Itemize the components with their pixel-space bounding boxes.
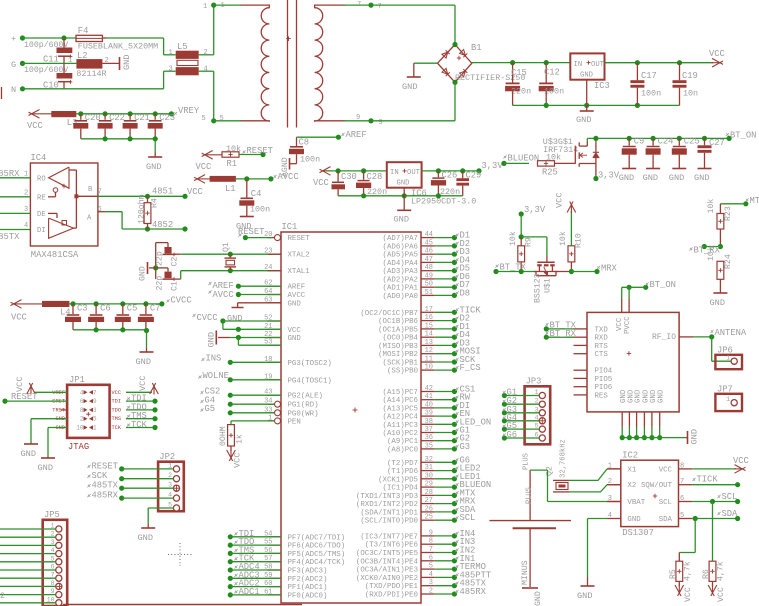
- wire JP1 TMS: [126, 418, 155, 420]
- wire WOLNE net: [228, 377, 233, 382]
- vcc arrow at R1: [204, 154, 222, 156]
- svg-text:BLUEON: BLUEON: [508, 154, 540, 164]
- IC1 right pin 46 net D3: [421, 253, 435, 255]
- svg-text:C20: C20: [85, 113, 101, 123]
- vcc arrow above R10: [570, 211, 572, 246]
- svg-text:GND: GND: [288, 300, 302, 308]
- wire AVCC net: [236, 178, 271, 180]
- wire SDA net: [692, 518, 738, 520]
- svg-text:RO: RO: [37, 176, 46, 184]
- svg-text:WOLNE: WOLNE: [203, 371, 229, 381]
- svg-text:C19: C19: [682, 71, 698, 81]
- svg-text:VCC: VCC: [27, 121, 43, 131]
- svg-text:(T2)PD7: (T2)PD7: [387, 460, 418, 468]
- JP5 pin 5: [56, 559, 62, 565]
- svg-text:8: 8: [80, 407, 84, 414]
- JP3 pin 4 net G4: [539, 418, 545, 424]
- capacitor C27: [704, 138, 706, 145]
- svg-text:C15: C15: [511, 68, 527, 78]
- svg-text:3: 3: [93, 407, 97, 414]
- IC1 right pin 16 net D2: [421, 320, 435, 322]
- svg-text:GND: GND: [402, 82, 417, 92]
- inductor L2: [76, 59, 102, 69]
- svg-text:14: 14: [425, 331, 433, 339]
- IC1 right pin 49 net D6: [421, 278, 435, 280]
- svg-text:9: 9: [93, 398, 97, 405]
- mosfet U$1 BSS123: [546, 256, 548, 263]
- connector JP6: [715, 355, 742, 369]
- svg-text:VCC: VCC: [313, 178, 329, 188]
- wire MRX net: [571, 271, 597, 273]
- svg-text:R6: R6: [702, 569, 711, 579]
- resistor R1: [222, 152, 239, 157]
- svg-text:4,7k: 4,7k: [683, 561, 693, 581]
- svg-text:C8: C8: [299, 138, 310, 148]
- svg-text:10n: 10n: [683, 89, 698, 99]
- svg-text:VCC: VCC: [196, 162, 212, 172]
- svg-text:BT_ON: BT_ON: [730, 131, 756, 141]
- svg-text:B1: B1: [471, 43, 482, 53]
- resistor R4 120ohm: [147, 196, 149, 202]
- IC1 left pin 64: [268, 294, 282, 296]
- svg-text:GND: GND: [288, 335, 302, 343]
- svg-text:(A9)PC1: (A9)PC1: [387, 438, 419, 446]
- svg-text:(AD3)PA3: (AD3)PA3: [383, 268, 418, 276]
- capacitor C28: [363, 171, 365, 180]
- svg-text:5: 5: [680, 512, 684, 520]
- svg-text:(OC2/OC1C)PB7: (OC2/OC1C)PB7: [360, 310, 418, 318]
- svg-text:100n: 100n: [544, 87, 564, 97]
- svg-text:AVCC: AVCC: [288, 292, 306, 300]
- svg-text:LP2950CDT-3.0: LP2950CDT-3.0: [411, 197, 476, 207]
- svg-text:36: 36: [425, 434, 433, 442]
- svg-text:48: 48: [425, 264, 433, 272]
- svg-text:JP6: JP6: [717, 346, 733, 356]
- svg-text:1: 1: [203, 3, 207, 11]
- svg-text:GND: GND: [136, 357, 151, 367]
- vcc arrow at L3: [31, 113, 52, 115]
- svg-text:C21: C21: [134, 113, 150, 123]
- svg-text:PG2(ALE): PG2(ALE): [288, 393, 323, 401]
- svg-text:(A15)PC7: (A15)PC7: [383, 389, 418, 397]
- IC1 left pin 55: [268, 544, 282, 546]
- svg-text:ADC1: ADC1: [239, 587, 260, 597]
- svg-text:7: 7: [429, 546, 433, 554]
- svg-text:1: 1: [24, 171, 28, 179]
- svg-text:GND: GND: [619, 173, 634, 183]
- JP1 gnd wire 2: [48, 427, 67, 429]
- wire BT_ON to module supply: [627, 285, 632, 290]
- svg-text:13: 13: [425, 339, 433, 347]
- svg-text:CVCC: CVCC: [171, 296, 192, 306]
- svg-text:VCC: VCC: [11, 313, 27, 323]
- svg-text:U$1: U$1: [543, 278, 553, 293]
- wire mosfet to BT_ON rail: [586, 138, 588, 141]
- capacitor C26: [437, 171, 439, 177]
- wire PEN pullup: [231, 420, 275, 422]
- ground under R24: [713, 292, 727, 294]
- wire CVCC to VCC pins: [192, 314, 195, 317]
- IC1 right pin 6 net IN1: [421, 560, 435, 562]
- wire IC6 output rail: [422, 170, 479, 172]
- IC1 left pin 56: [268, 552, 282, 554]
- svg-text:29: 29: [425, 481, 433, 489]
- IC2 pin SCL: [679, 501, 693, 503]
- svg-text:G6: G6: [507, 430, 518, 440]
- IC1 left pin 53: [268, 344, 282, 346]
- wire L5 to transformer primary: [199, 54, 214, 56]
- svg-text:4: 4: [204, 66, 208, 74]
- svg-text:4: 4: [24, 222, 28, 230]
- svg-text:7: 7: [680, 478, 684, 486]
- svg-text:C25: C25: [684, 137, 700, 147]
- wire AREF net: [297, 136, 339, 138]
- svg-text:40: 40: [425, 401, 433, 409]
- svg-text:6: 6: [80, 398, 84, 405]
- IC1 right pin 35 net G3: [421, 448, 435, 450]
- svg-text:XTAL1: XTAL1: [288, 268, 311, 276]
- svg-text:(TXD1/INT3)PD3: (TXD1/INT3)PD3: [356, 493, 418, 501]
- wire ADC4 net: [228, 567, 233, 572]
- svg-text:TCK: TCK: [112, 425, 122, 431]
- vcc arrow at L4: [13, 303, 42, 305]
- JP5 pin 6: [56, 567, 62, 573]
- svg-text:(MISO)PB3: (MISO)PB3: [378, 343, 418, 351]
- JP2 pin 3: [173, 485, 179, 491]
- wire IC6 input rail: [326, 170, 387, 172]
- svg-text:44: 44: [425, 231, 433, 239]
- svg-text:Q1: Q1: [222, 242, 231, 252]
- JP5 pin 2: [56, 534, 62, 540]
- svg-text:GND: GND: [690, 429, 700, 444]
- wire CVCC rail: [69, 303, 161, 305]
- capacitor C3: [72, 304, 74, 314]
- connector JP1 JTAG: [67, 385, 110, 438]
- svg-text:2: 2: [24, 190, 28, 198]
- svg-text:(XCK0/AIN0)PE2: (XCK0/AIN0)PE2: [356, 575, 418, 583]
- svg-text:C22: C22: [109, 113, 125, 123]
- wire JP2 pin5 to gnd: [148, 507, 173, 509]
- wire to gnd: [146, 330, 148, 348]
- resistor R6 pullup: [712, 502, 714, 562]
- svg-text:R23: R23: [724, 206, 733, 221]
- JP3 pin 1 net G1: [539, 392, 545, 398]
- svg-text:9: 9: [429, 529, 433, 537]
- IC1 right pin 25 net SCL: [421, 519, 435, 521]
- svg-text:0OHM: 0OHM: [219, 426, 228, 446]
- svg-text:C24: C24: [658, 137, 674, 147]
- svg-text:6: 6: [429, 554, 433, 562]
- svg-text:C23: C23: [159, 113, 175, 123]
- IC1 left pin 23: [268, 253, 282, 255]
- IC2 pin X2: [607, 484, 621, 486]
- svg-text:BSS123: BSS123: [534, 273, 543, 303]
- IC2 pin VBAT: [607, 501, 621, 503]
- svg-text:1: 1: [726, 355, 730, 362]
- svg-text:VCC: VCC: [659, 466, 673, 474]
- svg-text:IC1: IC1: [282, 222, 298, 232]
- vcc arrow at IC6: [322, 170, 332, 172]
- svg-text:37: 37: [425, 426, 433, 434]
- capacitor C10: [63, 63, 65, 73]
- wire to pin2: [0, 196, 30, 198]
- svg-text:(A8)PC0: (A8)PC0: [387, 446, 418, 454]
- IC1 left pin 61: [268, 594, 282, 596]
- svg-text:AREF: AREF: [288, 284, 306, 292]
- svg-text:7: 7: [378, 3, 382, 11]
- wire BLUEON net: [501, 161, 506, 166]
- svg-text:BT_ON: BT_ON: [650, 280, 676, 290]
- wire to choke L5: [163, 38, 165, 55]
- svg-text:X1: X1: [627, 466, 636, 474]
- ground of cap bank: [148, 156, 162, 158]
- JP3 pin 2 net G2: [539, 401, 545, 407]
- svg-text:R1: R1: [227, 159, 238, 169]
- wire SCL net: [692, 501, 738, 503]
- svg-text:4851: 4851: [152, 187, 173, 197]
- svg-text:F_CS: F_CS: [460, 363, 481, 373]
- IC1 right pin 29 net BLUEON: [421, 486, 435, 488]
- wire JP5 pin 3: [0, 544, 56, 546]
- IC1 left pin 57: [268, 561, 282, 563]
- svg-text:JP7: JP7: [717, 385, 733, 395]
- JP2 pin 5: [173, 505, 179, 511]
- pin63 AGND: [238, 302, 281, 304]
- svg-text:VCC: VCC: [138, 376, 148, 391]
- svg-text:PIO4: PIO4: [595, 368, 613, 376]
- svg-text:TICK: TICK: [697, 475, 719, 485]
- svg-text:(SCK)PB1: (SCK)PB1: [383, 360, 419, 368]
- wire JP5 pin 8: [0, 585, 56, 587]
- wire CS2 net: [228, 393, 233, 398]
- svg-text:PF2(ADC2): PF2(ADC2): [288, 576, 328, 584]
- IC1 right pin 13 net D3: [421, 344, 435, 346]
- resistor R5 pullup: [694, 519, 696, 553]
- svg-text:3,3V: 3,3V: [524, 205, 546, 215]
- wire BT_ON rail: [587, 137, 729, 139]
- IC1 left pin 20: [268, 237, 275, 239]
- wire TICK net: [692, 484, 738, 486]
- svg-text:50: 50: [425, 281, 433, 289]
- wire JP2 485TX: [119, 486, 124, 491]
- wire BT_RX to module: [544, 335, 549, 340]
- IC1 right pin 10 net F_CS: [421, 369, 435, 371]
- svg-text:C12: C12: [544, 68, 560, 78]
- svg-text:(IC1)PD4: (IC1)PD4: [383, 485, 419, 493]
- IC1 right pin 11 net SCK: [421, 361, 435, 363]
- svg-text:12: 12: [425, 347, 433, 355]
- wire bottom rail of regulator: [513, 104, 680, 106]
- wire AVCC label: [238, 294, 281, 296]
- svg-text:ANTENA: ANTENA: [715, 328, 747, 338]
- capacitor C2: [156, 242, 168, 244]
- svg-text:FUSEBLANK_5X20MM: FUSEBLANK_5X20MM: [78, 42, 158, 52]
- IC1 right pin 26 net SDA: [421, 511, 435, 513]
- IC1 left pin 19: [268, 379, 282, 381]
- terminal G input: [20, 61, 25, 66]
- IC1 right pin 8 net IN3: [421, 543, 435, 545]
- svg-text:2: 2: [80, 416, 84, 423]
- choke L5: [176, 51, 199, 59]
- svg-text:IN: IN: [574, 61, 583, 69]
- IC1 left pin 22: [268, 337, 282, 339]
- svg-text:JTAG: JTAG: [68, 442, 89, 452]
- svg-text:XTAL2: XTAL2: [288, 252, 310, 260]
- voltage regulator IC6: [387, 162, 422, 188]
- svg-text:R5: R5: [669, 569, 678, 579]
- svg-text:4: 4: [608, 512, 612, 520]
- svg-text:SQW/OUT: SQW/OUT: [641, 482, 673, 490]
- JP5 pin 1: [56, 526, 62, 532]
- svg-text:100n: 100n: [250, 205, 270, 215]
- svg-text:C3: C3: [77, 304, 88, 314]
- IC1 left pin 24: [268, 270, 282, 272]
- svg-text:10k: 10k: [706, 246, 716, 261]
- svg-text:(AD1)PA1: (AD1)PA1: [383, 285, 419, 293]
- module pin PIO6: [574, 386, 588, 388]
- IC1 right pin 37 net G1: [421, 432, 435, 434]
- IC1 right pin 45 net D2: [421, 245, 435, 247]
- svg-text:D8: D8: [460, 288, 471, 298]
- wire JP2 485RX: [119, 496, 124, 501]
- svg-text:MAX481CSA: MAX481CSA: [31, 250, 79, 260]
- svg-text:JP3: JP3: [526, 377, 542, 387]
- module pin CTS: [574, 353, 588, 355]
- IC1 right pin 40 net DI: [421, 407, 435, 409]
- wire 3.3V pullup: [519, 211, 524, 216]
- svg-text:OUT: OUT: [407, 169, 421, 177]
- IC1 left pin 52: [268, 320, 282, 322]
- wire IC2 VCC: [692, 468, 736, 470]
- IC2 pin GND: [607, 518, 621, 520]
- svg-text:RXD: RXD: [595, 335, 609, 343]
- svg-text:GND: GND: [577, 591, 592, 601]
- svg-text:N: N: [11, 85, 16, 95]
- svg-text:PG4(TOSC1): PG4(TOSC1): [288, 377, 332, 385]
- svg-text:(A12)PC4: (A12)PC4: [383, 414, 419, 422]
- svg-text:47: 47: [425, 256, 433, 264]
- svg-text:(A13)PC5: (A13)PC5: [383, 405, 418, 413]
- wire secondary bottom: [344, 120, 371, 122]
- svg-text:25: 25: [425, 514, 433, 522]
- svg-text:L5: L5: [177, 42, 188, 52]
- svg-text:C5: C5: [127, 304, 138, 314]
- svg-text:46: 46: [425, 248, 433, 256]
- IC1 right pin 27 net MRX: [421, 503, 435, 505]
- vcc arrow down at PEN: [230, 450, 232, 459]
- crystal Q1: [229, 254, 231, 258]
- IC1 left pin 60: [268, 586, 282, 588]
- svg-text:GND: GND: [138, 533, 153, 543]
- rtc IC2 DS1307: [621, 460, 679, 526]
- wire net N: [23, 88, 164, 90]
- svg-text:(OC3A/AIN1)PE3: (OC3A/AIN1)PE3: [356, 567, 418, 575]
- JP5 pin 7: [56, 575, 62, 581]
- svg-text:C26: C26: [442, 171, 458, 181]
- svg-text:31: 31: [425, 464, 433, 472]
- svg-text:485RX: 485RX: [0, 169, 20, 179]
- svg-text:42: 42: [425, 385, 433, 393]
- svg-text:TXD: TXD: [595, 326, 609, 334]
- ground of IC3: [586, 80, 588, 111]
- svg-text:10k: 10k: [546, 152, 561, 162]
- capacitor C24: [652, 138, 654, 145]
- IC1 left pin 62: [268, 285, 282, 287]
- capacitor C6: [95, 304, 97, 314]
- svg-text:SCK: SCK: [92, 471, 109, 481]
- svg-text:VCC: VCC: [555, 193, 565, 208]
- RS485 transceiver IC4: [30, 163, 98, 246]
- module pin PIO4: [574, 369, 588, 371]
- origin crosshair: [168, 543, 192, 566]
- svg-text:16: 16: [425, 314, 433, 322]
- IC1 right pin 5 net TERMO: [421, 568, 435, 570]
- vcc arrow right of JP1: [126, 391, 152, 393]
- capacitor C9: [628, 138, 630, 145]
- microcontroller IC1: [281, 232, 421, 603]
- svg-text:(TXD/PDO)PE1: (TXD/PDO)PE1: [365, 583, 419, 591]
- wire RESET to IC1: [245, 237, 271, 239]
- svg-text:5: 5: [93, 416, 97, 423]
- svg-text:GND: GND: [580, 72, 593, 80]
- IC1 left pin 58: [268, 569, 282, 571]
- svg-text:22p: 22p: [156, 251, 165, 266]
- svg-text:39: 39: [425, 410, 433, 418]
- svg-text:TDO: TDO: [112, 407, 122, 413]
- wire G4 net: [228, 402, 233, 407]
- wire BT_TX net: [493, 269, 498, 274]
- vcc arrow left of JP1: [34, 391, 67, 393]
- transformer secondary winding: [315, 5, 345, 121]
- svg-text:9: 9: [356, 114, 360, 122]
- capacitor C30: [337, 171, 339, 182]
- JP1 gnd wire 1: [31, 418, 67, 420]
- svg-text:49: 49: [425, 272, 433, 280]
- wire MTX net: [743, 201, 748, 206]
- wire net G: [23, 62, 77, 64]
- IC1 right pin 4 net 485PTT: [421, 576, 435, 578]
- svg-text:PIO6: PIO6: [595, 384, 613, 392]
- svg-text:7: 7: [93, 389, 97, 396]
- svg-text:(OC1A)PB5: (OC1A)PB5: [378, 326, 418, 334]
- svg-text:PF7(ADC7/TDI): PF7(ADC7/TDI): [288, 534, 346, 542]
- svg-text:(SS)PB0: (SS)PB0: [387, 368, 418, 376]
- svg-text:JP5: JP5: [44, 510, 60, 520]
- svg-text:1: 1: [221, 2, 225, 10]
- svg-text:C29: C29: [466, 171, 482, 181]
- svg-text:(AD2)PA2: (AD2)PA2: [383, 276, 418, 284]
- IC1 right pin 15 net D1: [421, 328, 435, 330]
- wire IC3 output: [605, 62, 714, 64]
- IC2 pin SDA: [679, 518, 693, 520]
- svg-text:C17: C17: [641, 71, 657, 81]
- JP3 pin 6 net G6: [539, 435, 545, 441]
- svg-text:SDA: SDA: [722, 509, 739, 519]
- svg-text:BT_RX: BT_RX: [550, 329, 577, 339]
- svg-text:RES: RES: [595, 392, 609, 400]
- JP5 pin 8: [56, 583, 62, 589]
- wire XTAL1 net: [174, 278, 181, 280]
- resistor R9: [520, 237, 522, 246]
- svg-text:RTS: RTS: [595, 343, 609, 351]
- svg-text:100n: 100n: [300, 155, 320, 165]
- svg-text:10: 10: [76, 425, 84, 432]
- svg-text:51: 51: [425, 289, 433, 297]
- connector JP7: [715, 394, 742, 411]
- svg-text:JP1: JP1: [69, 375, 85, 385]
- svg-text:RESET: RESET: [288, 235, 311, 243]
- svg-text:C9: C9: [634, 137, 645, 147]
